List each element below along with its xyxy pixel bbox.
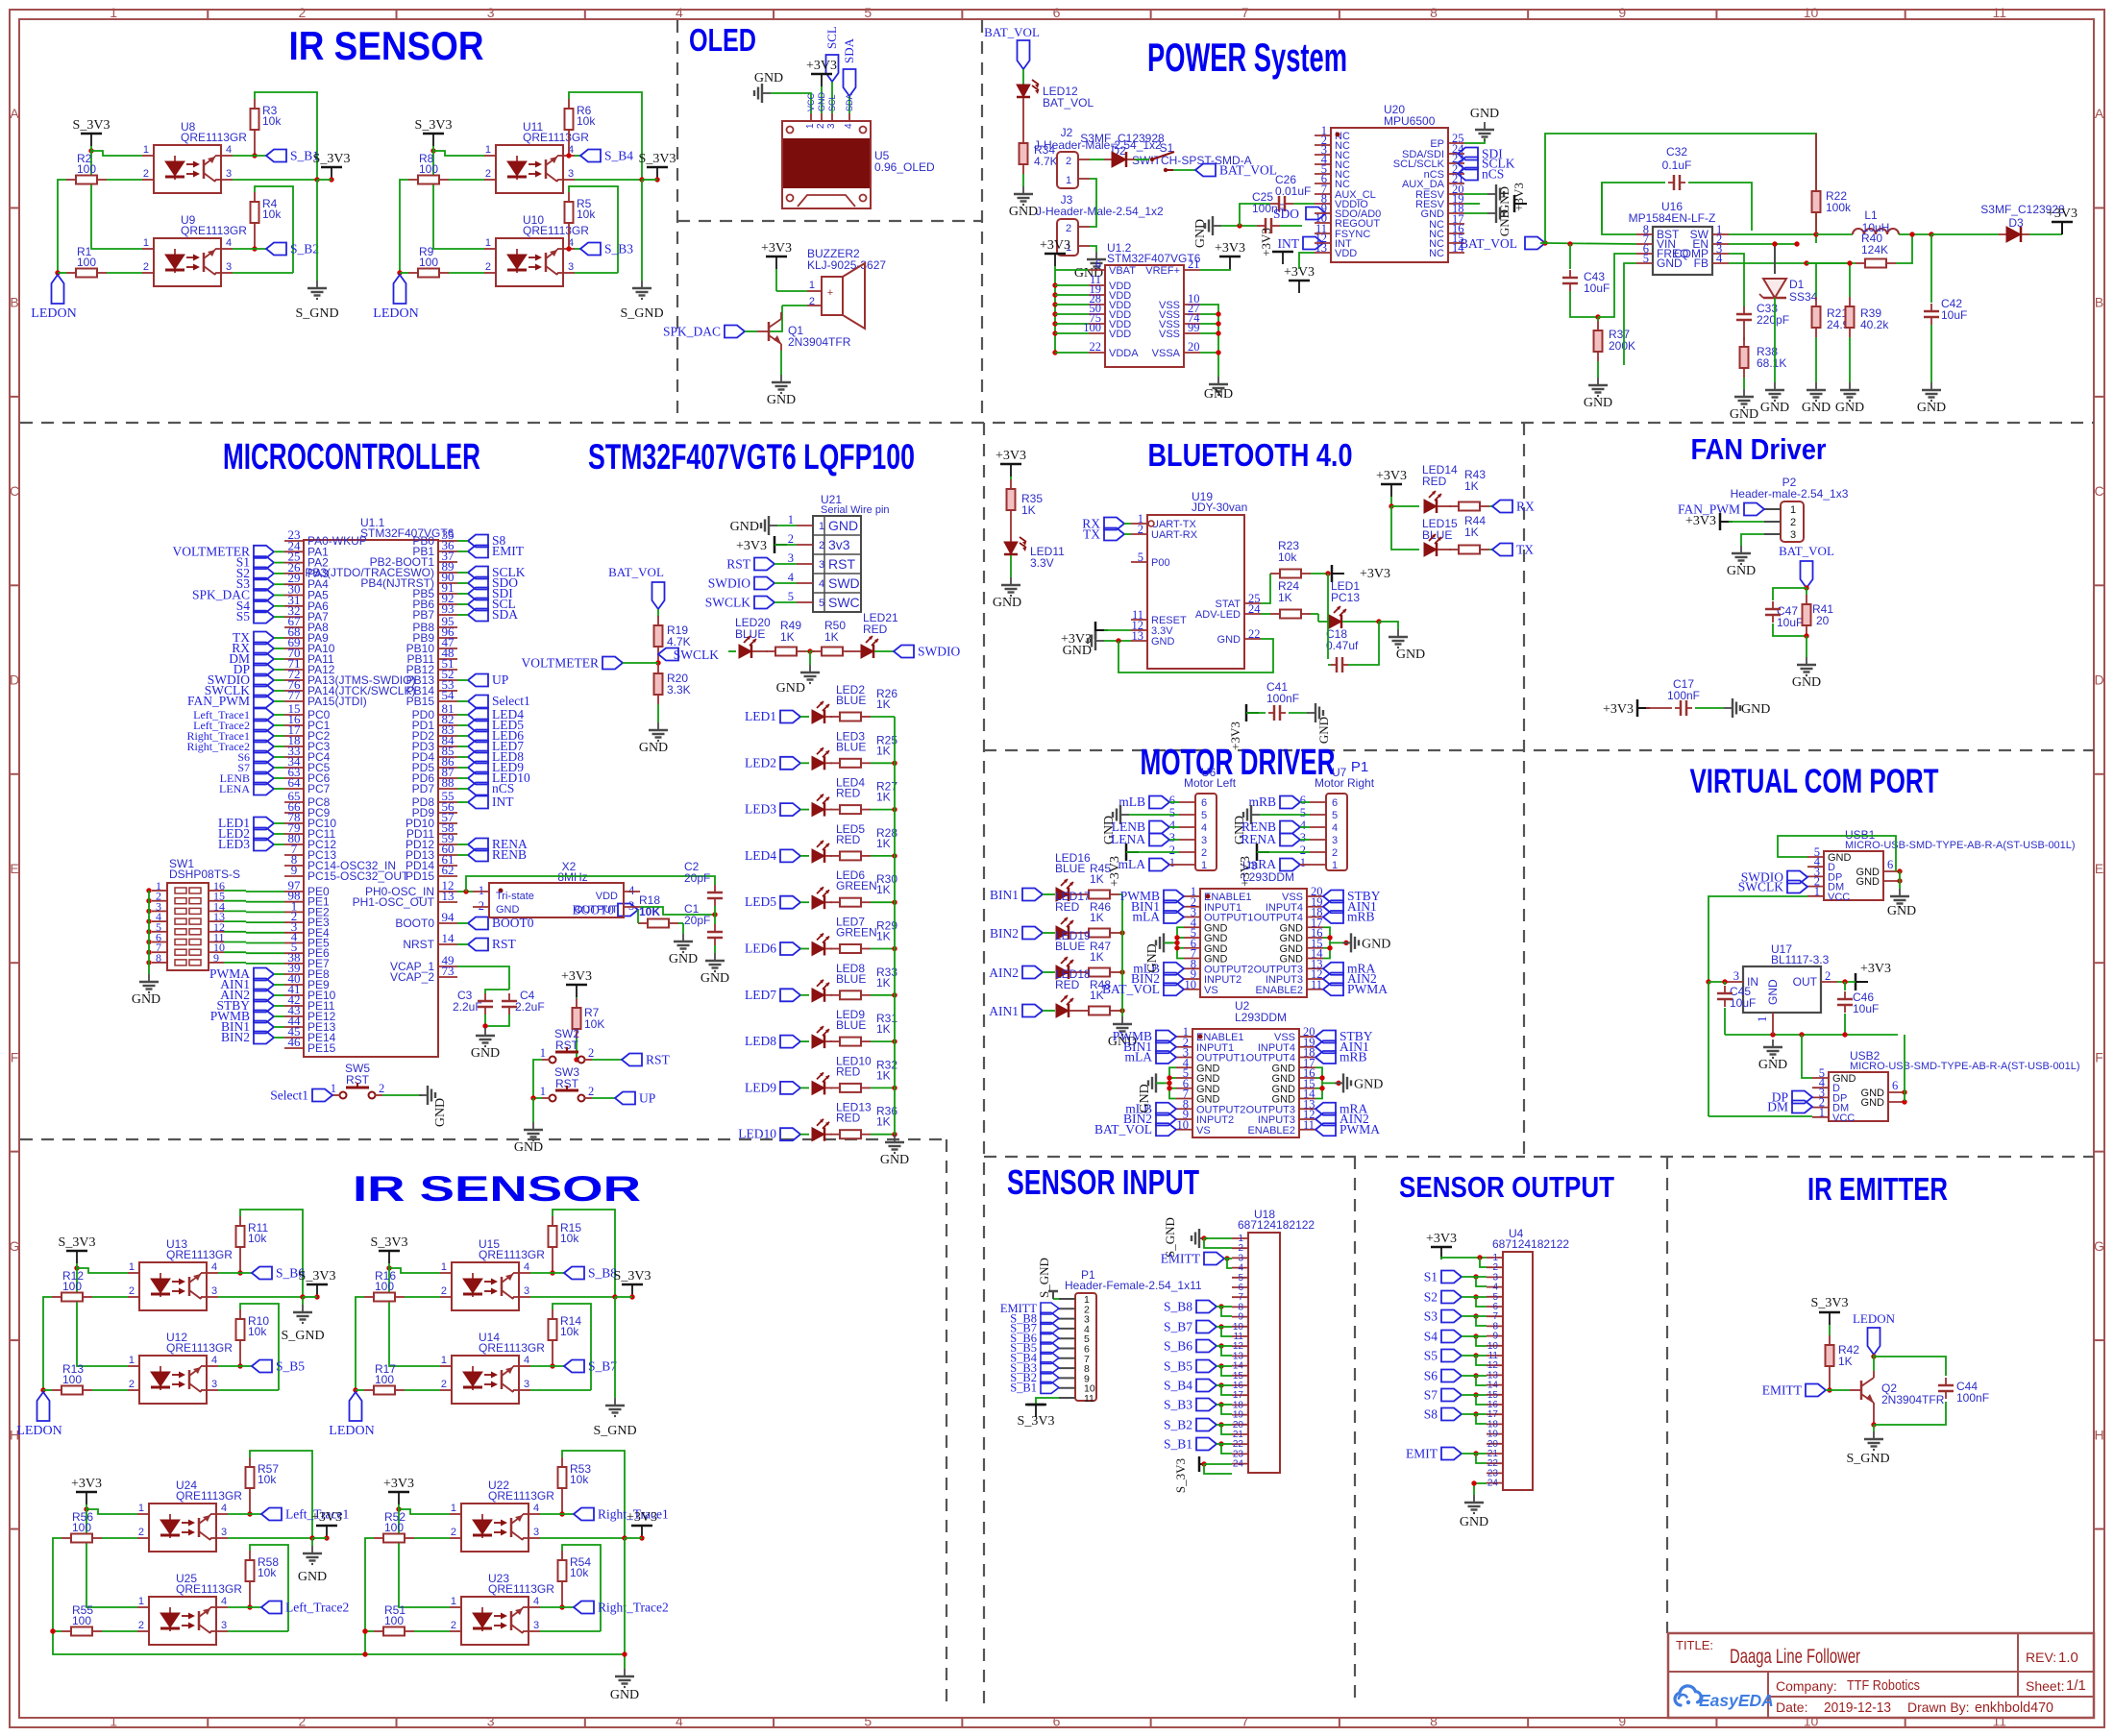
svg-text:5: 5 xyxy=(1332,810,1338,821)
svg-text:+3V3: +3V3 xyxy=(1215,241,1245,256)
svg-text:+3V3: +3V3 xyxy=(1259,228,1273,257)
svg-text:GND: GND xyxy=(1063,644,1092,658)
svg-text:2: 2 xyxy=(138,1620,144,1631)
svg-text:124K: 124K xyxy=(1861,243,1888,257)
svg-text:ENABLE2: ENABLE2 xyxy=(1255,985,1303,996)
svg-text:1: 1 xyxy=(138,1596,144,1607)
svg-text:1K: 1K xyxy=(780,630,795,644)
svg-text:3: 3 xyxy=(1169,831,1175,844)
svg-text:UART-RX: UART-RX xyxy=(1151,529,1198,541)
svg-text:SWC: SWC xyxy=(828,595,860,610)
svg-text:11: 11 xyxy=(1311,978,1322,991)
svg-text:ADV-LED: ADV-LED xyxy=(1195,609,1241,621)
svg-text:1K: 1K xyxy=(1278,591,1292,604)
svg-text:100: 100 xyxy=(77,256,96,269)
svg-text:8MHz: 8MHz xyxy=(557,870,587,884)
svg-text:+3V3: +3V3 xyxy=(1426,1232,1457,1246)
svg-text:2: 2 xyxy=(441,1285,447,1297)
svg-text:4: 4 xyxy=(628,884,635,897)
svg-text:RST: RST xyxy=(828,556,855,572)
svg-text:E: E xyxy=(10,861,18,876)
svg-text:QRE1113GR: QRE1113GR xyxy=(181,131,247,144)
svg-text:3.3K: 3.3K xyxy=(667,683,691,697)
svg-text:S_3V3: S_3V3 xyxy=(1811,1296,1849,1310)
svg-text:SWD: SWD xyxy=(828,575,860,591)
svg-text:L1: L1 xyxy=(1864,208,1878,222)
svg-text:4.7K: 4.7K xyxy=(1034,155,1058,168)
svg-text:4: 4 xyxy=(788,571,795,584)
svg-text:IR SENSOR: IR SENSOR xyxy=(289,23,484,68)
svg-text:10k: 10k xyxy=(262,208,282,221)
svg-text:4: 4 xyxy=(676,5,683,20)
svg-text:S2: S2 xyxy=(1424,1290,1438,1305)
svg-text:S_GND: S_GND xyxy=(593,1424,636,1438)
svg-text:10k: 10k xyxy=(258,1473,277,1486)
svg-text:1: 1 xyxy=(441,1261,447,1273)
svg-text:GND: GND xyxy=(701,971,729,986)
svg-text:1: 1 xyxy=(1814,885,1820,898)
svg-text:1: 1 xyxy=(143,237,149,249)
svg-text:6: 6 xyxy=(1332,797,1338,809)
svg-text:3: 3 xyxy=(1201,835,1207,846)
svg-text:+3V3: +3V3 xyxy=(1603,702,1634,717)
svg-text:RST: RST xyxy=(726,557,751,572)
svg-text:BAT_VOL: BAT_VOL xyxy=(1219,163,1277,178)
svg-text:+3V3: +3V3 xyxy=(736,539,767,553)
svg-text:GND: GND xyxy=(1151,636,1175,648)
svg-text:10k: 10k xyxy=(577,114,596,128)
svg-text:BIN2: BIN2 xyxy=(990,926,1019,941)
svg-text:1K: 1K xyxy=(876,883,891,896)
svg-text:13: 13 xyxy=(442,889,455,903)
svg-text:LED3: LED3 xyxy=(745,802,776,817)
svg-text:GND: GND xyxy=(1217,634,1241,646)
svg-text:IR SENSOR: IR SENSOR xyxy=(353,1169,641,1209)
svg-text:BLUE: BLUE xyxy=(836,972,866,986)
svg-text:VDD: VDD xyxy=(1109,329,1131,340)
svg-text:nCS: nCS xyxy=(492,781,514,795)
svg-text:Select1: Select1 xyxy=(492,694,530,708)
svg-text:10: 10 xyxy=(1185,978,1197,991)
svg-text:GND: GND xyxy=(471,1046,500,1061)
svg-text:+3V3: +3V3 xyxy=(1685,514,1716,528)
svg-text:1K: 1K xyxy=(876,1022,891,1036)
svg-text:10k: 10k xyxy=(248,1325,267,1338)
svg-text:3: 3 xyxy=(826,123,837,129)
svg-text:C: C xyxy=(10,483,19,499)
svg-text:2: 2 xyxy=(299,5,307,20)
svg-text:PC15-OSC32_OUT: PC15-OSC32_OUT xyxy=(307,869,409,883)
svg-text:1K: 1K xyxy=(876,697,891,711)
svg-text:GND: GND xyxy=(776,681,805,696)
svg-text:10k: 10k xyxy=(570,1566,589,1579)
svg-text:S5: S5 xyxy=(1424,1349,1438,1363)
svg-text:20: 20 xyxy=(1816,614,1830,627)
svg-text:3: 3 xyxy=(221,1527,227,1538)
svg-text:100: 100 xyxy=(375,1373,394,1386)
svg-text:S_3V3: S_3V3 xyxy=(1173,1458,1188,1493)
svg-text:SWDIO: SWDIO xyxy=(918,645,960,659)
svg-text:FAN Driver: FAN Driver xyxy=(1691,432,1827,466)
svg-text:GND: GND xyxy=(754,71,783,86)
svg-text:S_B3: S_B3 xyxy=(604,242,633,257)
svg-text:TX: TX xyxy=(1516,543,1534,557)
svg-text:MP1584EN-LF-Z: MP1584EN-LF-Z xyxy=(1629,211,1716,225)
svg-text:1K: 1K xyxy=(1838,1355,1853,1368)
svg-text:10k: 10k xyxy=(570,1473,589,1486)
svg-text:EMIT: EMIT xyxy=(1406,1447,1438,1461)
svg-text:GND: GND xyxy=(1802,401,1831,415)
svg-text:+3V3: +3V3 xyxy=(1040,238,1070,253)
svg-text:VS: VS xyxy=(1196,1125,1211,1137)
svg-text:0.47uf: 0.47uf xyxy=(1326,639,1359,652)
svg-text:3: 3 xyxy=(788,551,794,565)
svg-text:3: 3 xyxy=(1733,969,1739,983)
svg-text:100: 100 xyxy=(419,162,438,176)
svg-text:6: 6 xyxy=(1053,5,1061,20)
svg-text:1K: 1K xyxy=(1090,872,1104,886)
svg-text:mRB: mRB xyxy=(1248,795,1276,809)
svg-text:100: 100 xyxy=(1083,321,1101,334)
svg-text:GND: GND xyxy=(610,1688,639,1702)
svg-text:1: 1 xyxy=(1332,860,1338,871)
svg-text:S_3V3: S_3V3 xyxy=(639,152,676,166)
svg-text:+3V3: +3V3 xyxy=(1376,469,1407,483)
svg-text:GND: GND xyxy=(1362,937,1390,951)
svg-text:LED2: LED2 xyxy=(745,755,776,770)
svg-text:62: 62 xyxy=(442,863,455,877)
svg-text:PC13: PC13 xyxy=(1331,591,1360,604)
svg-text:LED10: LED10 xyxy=(738,1127,776,1141)
svg-text:1: 1 xyxy=(451,1596,456,1607)
svg-text:QRE1113GR: QRE1113GR xyxy=(488,1582,554,1596)
svg-text:EMITT: EMITT xyxy=(1161,1252,1201,1266)
svg-text:S3MF_C123928: S3MF_C123928 xyxy=(1080,132,1165,145)
svg-text:S_B6: S_B6 xyxy=(1164,1339,1192,1354)
svg-text:9: 9 xyxy=(1618,1714,1626,1729)
svg-text:9: 9 xyxy=(213,951,219,965)
svg-text:5: 5 xyxy=(864,5,872,20)
svg-text:QRE1113GR: QRE1113GR xyxy=(181,224,247,237)
svg-text:GREEN: GREEN xyxy=(836,879,877,892)
svg-text:5: 5 xyxy=(1201,810,1207,821)
svg-text:21: 21 xyxy=(1188,257,1200,271)
svg-text:Date:: Date: xyxy=(1776,1699,1807,1715)
svg-text:BIN2: BIN2 xyxy=(221,1030,250,1044)
svg-text:BLUETOOTH 4.0: BLUETOOTH 4.0 xyxy=(1148,437,1353,473)
svg-text:2: 2 xyxy=(1138,523,1143,536)
svg-text:VCC: VCC xyxy=(1832,1113,1855,1124)
svg-text:QRE1113GR: QRE1113GR xyxy=(523,131,589,144)
svg-text:B: B xyxy=(2095,295,2103,310)
svg-text:mRB: mRB xyxy=(1347,910,1375,924)
svg-text:GND: GND xyxy=(1887,904,1916,918)
svg-text:S7: S7 xyxy=(1424,1388,1438,1403)
svg-text:GND: GND xyxy=(1758,1058,1787,1072)
svg-text:0.01uF: 0.01uF xyxy=(1275,184,1311,198)
svg-text:+3V3: +3V3 xyxy=(383,1477,414,1491)
svg-text:J2: J2 xyxy=(1061,126,1073,139)
svg-text:14: 14 xyxy=(442,931,455,945)
svg-text:S4: S4 xyxy=(1424,1330,1438,1344)
svg-text:LENA: LENA xyxy=(1111,832,1145,846)
svg-text:5: 5 xyxy=(1300,806,1306,819)
svg-text:5: 5 xyxy=(1138,550,1143,564)
svg-text:687124182122: 687124182122 xyxy=(1238,1218,1315,1232)
svg-text:BAT_VOL: BAT_VOL xyxy=(1094,1122,1152,1137)
svg-text:1: 1 xyxy=(819,521,824,532)
svg-text:1: 1 xyxy=(143,144,149,156)
svg-text:10K: 10K xyxy=(584,1017,604,1031)
svg-text:7: 7 xyxy=(1241,5,1249,20)
svg-text:S_3V3: S_3V3 xyxy=(614,1269,651,1284)
svg-text:88: 88 xyxy=(442,775,455,790)
svg-text:99: 99 xyxy=(1188,321,1200,334)
svg-text:GND: GND xyxy=(433,1098,448,1127)
svg-text:2: 2 xyxy=(1332,847,1338,859)
svg-text:GND: GND xyxy=(767,393,796,407)
svg-text:10k: 10k xyxy=(262,114,282,128)
svg-text:GND: GND xyxy=(1145,943,1160,972)
svg-text:INT: INT xyxy=(492,795,514,809)
svg-text:L293DDM: L293DDM xyxy=(1235,1011,1287,1024)
svg-text:GND: GND xyxy=(496,904,520,916)
svg-text:SENSOR OUTPUT: SENSOR OUTPUT xyxy=(1399,1170,1614,1204)
svg-text:4: 4 xyxy=(524,1261,529,1273)
svg-text:S_B5: S_B5 xyxy=(1164,1359,1192,1374)
svg-text:1: 1 xyxy=(788,513,794,526)
svg-text:100k: 100k xyxy=(1826,201,1852,214)
svg-text:D: D xyxy=(10,672,19,688)
svg-text:2: 2 xyxy=(129,1285,135,1297)
svg-text:GND: GND xyxy=(1009,205,1038,219)
svg-text:QRE1113GR: QRE1113GR xyxy=(488,1489,554,1503)
svg-text:5: 5 xyxy=(1169,806,1175,819)
svg-text:S_B5: S_B5 xyxy=(276,1359,305,1374)
svg-text:4: 4 xyxy=(524,1355,529,1366)
svg-text:1K: 1K xyxy=(876,837,891,850)
svg-text:200K: 200K xyxy=(1609,339,1635,353)
svg-text:GND: GND xyxy=(730,520,759,534)
svg-text:1K: 1K xyxy=(1021,503,1036,517)
svg-text:3: 3 xyxy=(628,899,634,913)
svg-text:10k: 10k xyxy=(1278,550,1297,564)
svg-text:4: 4 xyxy=(1201,822,1207,834)
svg-text:+3V3: +3V3 xyxy=(1360,567,1390,581)
svg-text:SPK_DAC: SPK_DAC xyxy=(663,325,721,339)
svg-text:S_GND: S_GND xyxy=(1846,1452,1889,1466)
svg-text:FAN_PWM: FAN_PWM xyxy=(187,694,250,708)
svg-text:ENABLE2: ENABLE2 xyxy=(1247,1125,1295,1137)
svg-text:P1: P1 xyxy=(1351,759,1368,775)
svg-text:24: 24 xyxy=(1487,1479,1499,1489)
svg-text:G: G xyxy=(2094,1238,2104,1254)
svg-text:1: 1 xyxy=(540,1046,546,1060)
svg-text:mLA: mLA xyxy=(1118,857,1146,871)
svg-text:10uF: 10uF xyxy=(1584,281,1610,295)
svg-text:GND: GND xyxy=(1741,702,1770,717)
svg-text:13: 13 xyxy=(1132,629,1144,643)
svg-text:GND: GND xyxy=(298,1570,327,1584)
svg-text:GND: GND xyxy=(1760,401,1789,415)
svg-text:8: 8 xyxy=(1430,1714,1438,1729)
svg-text:4: 4 xyxy=(226,144,232,156)
svg-text:MICRO-USB-SMD-TYPE-AB-R-A(ST-U: MICRO-USB-SMD-TYPE-AB-R-A(ST-USB-001L) xyxy=(1850,1061,2080,1072)
svg-text:BLUE: BLUE xyxy=(1055,940,1085,953)
svg-text:S5: S5 xyxy=(236,609,251,623)
svg-text:3: 3 xyxy=(487,5,495,20)
svg-text:8: 8 xyxy=(156,951,161,965)
svg-text:10: 10 xyxy=(1177,1118,1190,1132)
svg-text:BAT_VOL: BAT_VOL xyxy=(1043,96,1094,110)
svg-text:AIN1: AIN1 xyxy=(989,1004,1019,1018)
svg-text:SWDIO: SWDIO xyxy=(708,576,750,591)
svg-text:1: 1 xyxy=(805,123,816,129)
svg-text:1K: 1K xyxy=(876,744,891,757)
svg-text:10: 10 xyxy=(1804,5,1819,20)
svg-text:4: 4 xyxy=(221,1596,227,1607)
svg-text:VCAP_2: VCAP_2 xyxy=(390,970,434,984)
svg-text:mLA: mLA xyxy=(1133,910,1161,924)
svg-text:BLUE: BLUE xyxy=(836,694,866,707)
svg-text:RENB: RENB xyxy=(492,847,527,862)
svg-text:JDY-30van: JDY-30van xyxy=(1192,501,1247,514)
svg-text:4: 4 xyxy=(533,1596,539,1607)
svg-text:E: E xyxy=(2095,861,2103,876)
svg-text:2: 2 xyxy=(138,1527,144,1538)
svg-text:RED: RED xyxy=(836,1064,861,1078)
svg-text:Motor Right: Motor Right xyxy=(1315,776,1375,790)
svg-text:220pF: 220pF xyxy=(1757,313,1789,327)
svg-text:Motor Left: Motor Left xyxy=(1184,776,1237,790)
svg-text:1.0: 1.0 xyxy=(2058,1650,2078,1666)
svg-text:S_3V3: S_3V3 xyxy=(299,1269,336,1284)
svg-text:EasyEDA: EasyEDA xyxy=(1699,1691,1774,1710)
svg-text:2: 2 xyxy=(1066,223,1071,234)
svg-text:S_3V3: S_3V3 xyxy=(371,1235,408,1250)
svg-text:VDDA: VDDA xyxy=(1109,348,1139,359)
svg-text:A: A xyxy=(10,106,19,121)
svg-text:Header-male-2.54_1x3: Header-male-2.54_1x3 xyxy=(1731,487,1849,501)
svg-text:+3V3: +3V3 xyxy=(627,1510,657,1525)
svg-text:3: 3 xyxy=(487,1714,495,1729)
svg-text:2: 2 xyxy=(299,1714,307,1729)
svg-text:10k: 10k xyxy=(248,1232,267,1245)
svg-text:1K: 1K xyxy=(1090,950,1104,964)
svg-text:5: 5 xyxy=(864,1714,872,1729)
svg-text:S_3V3: S_3V3 xyxy=(1018,1414,1055,1429)
svg-text:BAT_VOL: BAT_VOL xyxy=(608,565,664,579)
svg-text:+3V3: +3V3 xyxy=(806,59,837,73)
svg-text:4: 4 xyxy=(1300,819,1307,832)
svg-text:1K: 1K xyxy=(876,1115,891,1129)
svg-text:3: 3 xyxy=(221,1620,227,1631)
svg-text:PE15: PE15 xyxy=(307,1041,336,1055)
svg-text:2: 2 xyxy=(588,1085,594,1098)
svg-text:VDD: VDD xyxy=(1335,248,1357,259)
svg-text:4: 4 xyxy=(211,1261,217,1273)
svg-text:Daaga Line Follower: Daaga Line Follower xyxy=(1730,1646,1860,1668)
svg-text:S_GND: S_GND xyxy=(620,306,663,321)
svg-text:3v3: 3v3 xyxy=(828,537,850,552)
svg-text:10k: 10k xyxy=(560,1325,579,1338)
svg-text:SDA: SDA xyxy=(492,607,518,622)
svg-text:mLA: mLA xyxy=(1125,1050,1153,1064)
svg-text:RX: RX xyxy=(1516,500,1535,514)
svg-text:77: 77 xyxy=(288,688,302,702)
svg-text:GND: GND xyxy=(1396,648,1425,662)
svg-text:3: 3 xyxy=(568,168,574,180)
svg-text:VIRTUAL COM PORT: VIRTUAL COM PORT xyxy=(1690,763,1939,800)
svg-text:OUTPUT: OUTPUT xyxy=(575,904,619,916)
svg-text:PD15: PD15 xyxy=(406,869,434,883)
svg-text:46: 46 xyxy=(288,1035,302,1049)
svg-text:TX: TX xyxy=(1083,527,1100,542)
svg-text:QRE1113GR: QRE1113GR xyxy=(176,1582,242,1596)
svg-text:22: 22 xyxy=(1248,627,1261,641)
svg-text:GND: GND xyxy=(1856,876,1880,888)
svg-text:S_B8: S_B8 xyxy=(1164,1300,1192,1314)
svg-text:2: 2 xyxy=(788,532,794,546)
svg-text:MPU6500: MPU6500 xyxy=(1384,114,1436,128)
svg-text:+3V3: +3V3 xyxy=(561,969,592,984)
svg-text:C32: C32 xyxy=(1666,145,1687,159)
svg-text:S_B4: S_B4 xyxy=(1164,1379,1192,1393)
svg-text:GND: GND xyxy=(1835,401,1864,415)
svg-text:9: 9 xyxy=(1618,5,1626,20)
svg-text:4: 4 xyxy=(221,1503,227,1514)
svg-text:2: 2 xyxy=(143,261,149,273)
svg-text:GND: GND xyxy=(828,518,858,533)
svg-text:3: 3 xyxy=(568,261,574,273)
svg-text:10k: 10k xyxy=(560,1232,579,1245)
svg-text:100: 100 xyxy=(62,1280,82,1293)
svg-text:GND: GND xyxy=(1861,1097,1885,1109)
svg-text:100: 100 xyxy=(72,1614,91,1627)
svg-text:20: 20 xyxy=(1188,340,1200,354)
svg-text:S6: S6 xyxy=(1424,1369,1438,1383)
svg-text:2: 2 xyxy=(485,261,491,273)
svg-text:1: 1 xyxy=(1300,856,1306,869)
svg-text:100: 100 xyxy=(384,1521,404,1534)
svg-text:2: 2 xyxy=(819,540,824,551)
svg-text:BAT_VOL: BAT_VOL xyxy=(984,25,1040,39)
svg-text:LED9: LED9 xyxy=(745,1080,776,1094)
svg-text:mLB: mLB xyxy=(1118,795,1145,809)
svg-text:100: 100 xyxy=(77,162,96,176)
svg-text:BLUE: BLUE xyxy=(836,740,866,753)
svg-text:RST: RST xyxy=(646,1053,671,1067)
svg-text:3: 3 xyxy=(1300,831,1306,844)
svg-text:BLUE: BLUE xyxy=(1055,862,1085,875)
svg-text:BAT_VOL: BAT_VOL xyxy=(1779,544,1834,558)
svg-text:SWCLK: SWCLK xyxy=(1738,880,1784,894)
svg-text:LEDON: LEDON xyxy=(1853,1311,1896,1326)
svg-text:BL1117-3.3: BL1117-3.3 xyxy=(1771,953,1830,966)
svg-text:2: 2 xyxy=(451,1620,456,1631)
svg-text:100: 100 xyxy=(72,1521,91,1534)
svg-text:GND: GND xyxy=(1917,401,1946,415)
svg-text:8: 8 xyxy=(1430,5,1438,20)
svg-text:2N3904TFR: 2N3904TFR xyxy=(1881,1393,1945,1406)
svg-text:S3: S3 xyxy=(1424,1309,1438,1324)
svg-text:F: F xyxy=(2095,1049,2103,1064)
svg-text:RED: RED xyxy=(1055,900,1080,914)
svg-text:4: 4 xyxy=(1716,252,1723,265)
svg-text:1: 1 xyxy=(1819,1106,1825,1119)
svg-text:BLUE: BLUE xyxy=(836,1018,866,1032)
svg-text:S8: S8 xyxy=(1424,1407,1438,1422)
